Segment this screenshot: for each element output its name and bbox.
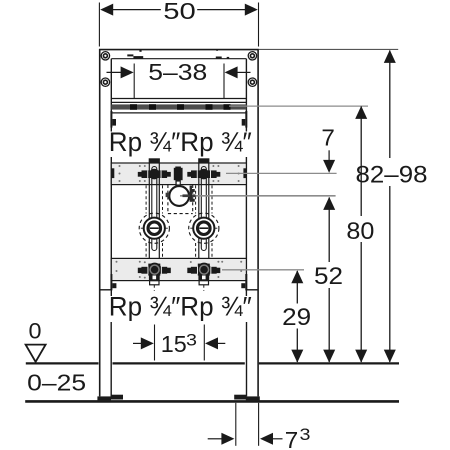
fitting rail 2 [111,258,246,280]
frame top edge tick right [216,49,218,50]
meter bolt [174,168,183,180]
left rail hook upper [110,111,112,128]
left rail inner line [110,59,112,132]
svg-text:50: 50 [163,0,196,24]
svg-text:80: 80 [346,218,374,245]
dimension 15-3 arrow right [216,342,225,344]
dimension 7-3 extension line right [258,403,260,446]
svg-text:7: 7 [321,124,335,150]
svg-text:29: 29 [282,304,311,331]
meter clamp right bar [190,186,192,202]
ring fitting left [141,218,168,239]
svg-text:0: 0 [29,318,42,343]
centerline dashes below fittings [153,285,155,291]
dimension 80 line [360,107,362,217]
meter clamp circle [169,186,189,206]
top crossbar bottom line [111,58,246,60]
svg-text:15: 15 [161,331,187,357]
svg-text:5–38: 5–38 [148,59,207,85]
svg-text:3: 3 [186,330,197,349]
leader line to rail 2 (29) [222,269,304,271]
washbasin rail top line [111,98,246,100]
dimension 5-38 arrow left [107,71,124,73]
washbasin rail second line [111,101,246,103]
fitting rail 1 [111,163,246,185]
dimension 29 line [296,271,298,304]
screw top-left lower [101,78,109,86]
dimension 5-38 arrow right [235,71,250,73]
level triangle symbol [26,345,46,362]
ring fitting right dashed circle [189,213,219,243]
dimension 82-98 line [389,51,391,159]
dimension 50 line [109,9,161,11]
dimension 7-3 arrow right [271,438,283,440]
left rail hook lower [110,274,112,290]
dimension 50 extension line right [258,3,260,47]
screw top-right upper [248,52,256,60]
dimension 15-3 extension line left [154,325,156,361]
screw top-right lower [248,78,256,86]
dimension 52 line [328,198,330,263]
fitting rail 1 end tab right [243,168,246,178]
elbow fitting left (rail 2) [138,263,171,285]
right rail inner line [245,59,247,132]
svg-text:82–98: 82–98 [356,162,428,189]
level line (finished floor) [26,362,99,364]
elbow fitting right (rail 2) [187,263,220,285]
ring fitting right [190,218,217,239]
washbasin rail dark band [111,104,246,109]
frame top edge [99,49,259,51]
dimension 50 extension line left [98,3,100,47]
strap right [196,163,212,258]
ground line [25,400,399,403]
top crossbar tab left [127,54,133,56]
washbasin rail bottom line [111,112,246,114]
right rail hook lower [245,274,247,290]
dimension 7 arrow [328,150,330,163]
dimension 50 arrowhead left [100,4,113,16]
fitting 1 left (top rail) [138,158,171,179]
fitting rail 1 end tab left [111,168,114,178]
svg-text:Rp ¾″Rp ¾″: Rp ¾″Rp ¾″ [109,127,252,157]
meter dashed box [168,185,193,214]
left rail outer line [99,49,101,396]
svg-text:7: 7 [285,427,299,450]
dimension 5-38 extension line left [133,64,135,100]
svg-text:0–25: 0–25 [27,369,86,395]
dimension 7-3 arrow left [208,438,224,440]
leader line water connection (7) [226,172,337,174]
svg-text:Rp ¾″Rp ¾″: Rp ¾″Rp ¾″ [109,292,252,322]
rail 2 rivet dots [116,261,243,279]
ring fitting left dashed circle [139,213,169,243]
strap left [146,163,162,258]
svg-text:3: 3 [300,425,311,444]
left foot [97,396,111,400]
dimension 7-3 extension line left [235,403,237,446]
frame top edge tick left [139,50,141,52]
dimension 5-38 extension line right [223,64,225,100]
right rail outer line [257,49,259,396]
svg-text:52: 52 [314,263,343,290]
fitting 1 right (top rail) [187,158,220,179]
leader line to frame top (82-98) [259,48,398,50]
meter clamp left tab [166,193,170,197]
meter leader line (gray) [180,195,336,197]
dimension 50 arrowhead right [245,4,258,16]
right foot [234,395,246,400]
dimension 15-3 extension line right [203,325,205,361]
right rail hook upper [245,111,247,128]
rail 1 rivet dots [119,165,240,182]
dimension 15-3 arrow left [133,342,143,344]
leader line to washbasin rail (80) [229,105,368,107]
screw top-left upper [101,52,109,60]
top crossbar tab right [216,57,222,59]
